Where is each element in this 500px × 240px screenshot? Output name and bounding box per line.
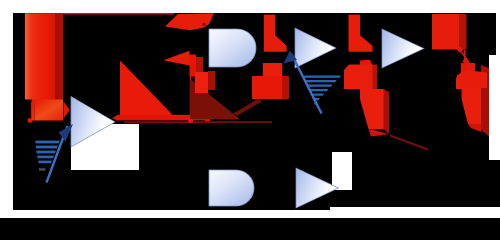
block M1 upper [263, 63, 282, 76]
arrow D rotated top-middle [165, 13, 214, 30]
bent arrow 2 side face [196, 57, 203, 78]
box I side face [459, 14, 467, 50]
shadow maroon triangle C [190, 79, 240, 119]
block I2 [457, 71, 487, 89]
VGA2 arrowhead [284, 51, 298, 64]
VGA1 shaft [47, 126, 68, 183]
block M2 upper dark edge [373, 65, 378, 90]
arrowhead I [463, 57, 472, 64]
block M2 upper box [344, 65, 377, 90]
VGA2 shaft [292, 54, 322, 114]
box I bright [432, 14, 459, 50]
wire red vertical under box I [464, 50, 466, 71]
block L1 [264, 15, 287, 52]
block J2 upper box [456, 72, 481, 89]
buffer T4 triangle [296, 168, 339, 208]
VGA1 gray bar [39, 168, 46, 170]
block J2 lower bar [462, 89, 482, 124]
white matte wake T4 [332, 152, 352, 190]
block M2 top bump [360, 60, 373, 67]
wire maroon bottom line [124, 121, 272, 123]
resistor A arrowhead [64, 102, 70, 119]
resistor A extrusion lines [31, 102, 32, 121]
bent arrow 2 shaft [190, 55, 197, 77]
block M1 side [282, 76, 289, 99]
node dot I [457, 47, 462, 52]
shadow diagonal M1 [233, 99, 262, 116]
white right edge column [489, 13, 500, 160]
op-amp D1 AND gate shape [209, 29, 256, 67]
transistor bent arrow 2 head [164, 51, 190, 66]
resistor A elbow run [32, 100, 64, 121]
shadow triangle B bright [120, 61, 175, 119]
capacitor bright box C [208, 71, 216, 90]
buffer T2 triangle [295, 28, 336, 68]
block M1 lower [252, 76, 282, 99]
VGA2 hatch bars [303, 76, 342, 105]
resistor A bent arrow vertical bar [25, 14, 63, 100]
VGA1 arrowhead [59, 124, 74, 142]
buffer T1 triangle [71, 97, 115, 148]
node A dot [28, 118, 33, 123]
white left column [0, 0, 13, 218]
white bottom strip [0, 210, 500, 218]
shadow diagonal right 1 [390, 136, 428, 150]
white top strip [0, 0, 500, 13]
block M2 lower dark strip [384, 89, 390, 134]
buffer T3 triangle [382, 29, 424, 68]
block L2 [349, 15, 373, 52]
block J2 taper [468, 124, 481, 132]
wire thin vertical line [190, 63, 192, 119]
block M2 lower bar [360, 89, 384, 129]
white bottom right deeper strip [330, 207, 500, 218]
op-amp D2 AND gate shape [209, 170, 254, 206]
wire diagonal I [461, 51, 468, 60]
block M2 taper [369, 129, 390, 137]
arrowhead small left [112, 115, 119, 121]
wire red top line [25, 13, 174, 14]
VGA1 hatch bars [35, 141, 59, 164]
block J2 dark side strip [481, 65, 489, 136]
node dot right end [205, 117, 210, 122]
wire red bar under B [117, 115, 208, 121]
block J2 top bump [461, 63, 475, 72]
node dot B [188, 118, 193, 123]
white matte wake T1 [71, 124, 139, 170]
